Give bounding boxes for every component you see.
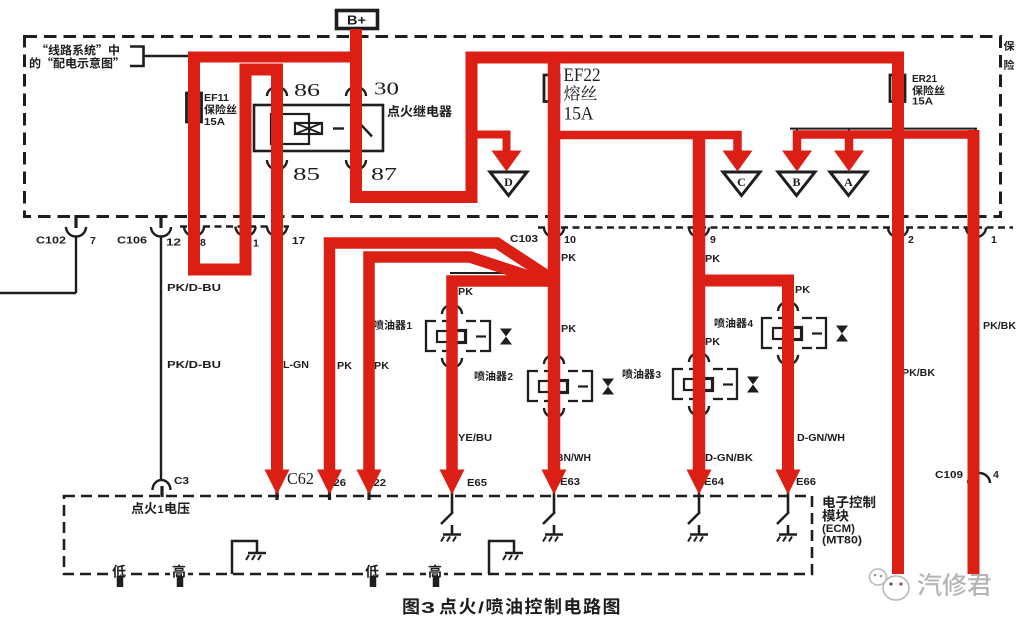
svg-text:C106: C106	[117, 235, 147, 247]
svg-text:C: C	[737, 175, 746, 189]
svg-text:15A: 15A	[564, 104, 594, 125]
svg-text:PK/D-BU: PK/D-BU	[167, 282, 221, 294]
svg-text:PK: PK	[561, 323, 576, 335]
svg-text:PK/D-BU: PK/D-BU	[167, 359, 221, 371]
svg-text:15A: 15A	[912, 96, 933, 108]
svg-text:E66: E66	[796, 476, 816, 488]
svg-text:3: 3	[421, 600, 435, 617]
svg-text:(MT80): (MT80)	[822, 535, 862, 547]
svg-text:PK/BK: PK/BK	[983, 320, 1016, 332]
svg-text:9: 9	[710, 234, 716, 246]
svg-text:17: 17	[292, 235, 305, 247]
svg-text:B: B	[792, 175, 800, 189]
svg-text:C102: C102	[36, 235, 66, 247]
svg-text:(ECM): (ECM)	[822, 523, 855, 535]
svg-text:C109: C109	[935, 469, 963, 481]
svg-text:PK: PK	[705, 336, 720, 348]
svg-text:1: 1	[407, 321, 413, 332]
svg-text:PK: PK	[337, 360, 352, 372]
svg-text:7: 7	[90, 235, 96, 247]
svg-text:BN/WH: BN/WH	[556, 452, 591, 464]
svg-text:/: /	[478, 600, 485, 617]
svg-text:EF22: EF22	[564, 65, 601, 86]
svg-text:ER21: ER21	[912, 73, 937, 85]
svg-text:A: A	[844, 175, 853, 189]
svg-text:E63: E63	[560, 476, 580, 488]
svg-text:B+: B+	[347, 14, 366, 28]
svg-text:85: 85	[293, 164, 320, 184]
svg-text:PK: PK	[374, 360, 389, 372]
svg-text:D-GN/WH: D-GN/WH	[797, 432, 845, 444]
svg-text:4: 4	[748, 319, 754, 330]
svg-text:87: 87	[371, 164, 397, 184]
svg-text:1: 1	[253, 238, 259, 250]
svg-text:EF11: EF11	[204, 92, 229, 104]
svg-text:YE/BU: YE/BU	[458, 432, 492, 444]
svg-text:PK/BK: PK/BK	[902, 367, 935, 379]
svg-text:10: 10	[564, 234, 576, 246]
svg-text:12: 12	[166, 237, 181, 249]
svg-text:86: 86	[294, 80, 320, 100]
svg-text:3: 3	[656, 370, 662, 381]
svg-text:15A: 15A	[204, 116, 225, 128]
svg-text:8: 8	[200, 237, 206, 249]
svg-text:1: 1	[158, 504, 164, 516]
svg-text:D: D	[504, 175, 513, 189]
svg-text:30: 30	[374, 79, 399, 99]
svg-text:L-GN: L-GN	[283, 359, 309, 371]
svg-text:2: 2	[908, 234, 914, 246]
svg-text:C3: C3	[174, 475, 189, 487]
svg-text:PK: PK	[705, 253, 720, 265]
svg-text:PK: PK	[561, 252, 576, 264]
svg-text:4: 4	[993, 469, 999, 481]
svg-text:PK: PK	[795, 284, 810, 296]
svg-text:2: 2	[508, 372, 514, 383]
svg-text:C103: C103	[510, 233, 538, 245]
svg-text:D-GN/BK: D-GN/BK	[705, 452, 753, 464]
svg-text:C62: C62	[287, 469, 314, 488]
svg-text:E65: E65	[467, 477, 487, 489]
svg-text:PK: PK	[458, 286, 473, 298]
svg-text:1: 1	[991, 234, 997, 246]
